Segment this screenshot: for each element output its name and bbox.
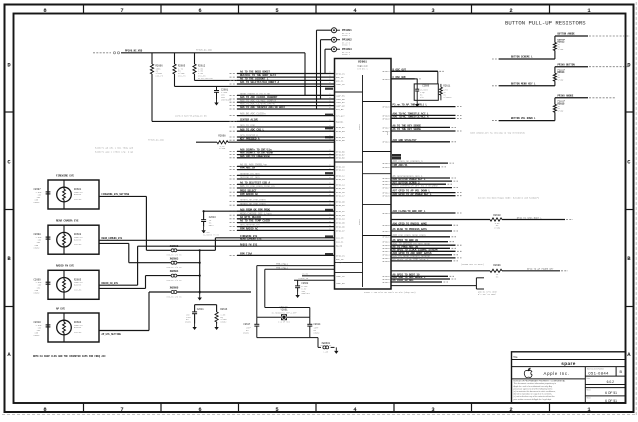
- document number: [587, 367, 609, 375]
- capacitor C2606: [415, 84, 430, 100]
- svg-text:nnnnn 7: nnnnn 7: [342, 34, 350, 37]
- wire XW2604 out: [177, 275, 200, 277]
- svg-text:B=nnnn: B=nnnn: [74, 238, 82, 241]
- svg-text:CLK_I0: CLK_I0: [336, 237, 344, 240]
- wires: net rows into U2601 left pins: [230, 71, 335, 256]
- capacitor C2607: [34, 188, 51, 204]
- svg-text:U2601: U2601: [358, 61, 367, 64]
- svg-text:LADP_EN: LADP_EN: [336, 94, 345, 97]
- svg-text:GPIO_D4: GPIO_D4: [336, 218, 345, 221]
- svg-text:XW2605: XW2605: [170, 287, 179, 290]
- svg-text:PP3V0 ANODE: PP3V0 ANODE: [558, 94, 574, 97]
- svg-text:GPIO_D2: GPIO_D2: [336, 210, 345, 213]
- svg-text:a1 mT cnn-rnn: a1 mT cnn-rnn: [198, 77, 213, 80]
- svg-text:t10-3%: t10-3%: [74, 243, 82, 246]
- svg-text:1/16W: 1/16W: [558, 110, 565, 113]
- svg-text:GPIO_D5: GPIO_D5: [336, 222, 345, 225]
- svg-text:(R2609 DNI to 5xxK): (R2609 DNI to 5xxK): [461, 263, 484, 266]
- ground below C2601: [216, 99, 218, 103]
- annotation left of R2608: [95, 147, 134, 154]
- svg-text:Title: Title: [513, 356, 518, 359]
- svg-text:Button ESD boot/logic mode: R2: Button ESD boot/logic mode: R2610(n) and…: [478, 197, 539, 200]
- svg-text:GPIO26: GPIO26: [383, 106, 391, 109]
- resistor R2610: [391, 214, 573, 229]
- jumper XW2601: [320, 342, 334, 354]
- wire XW2603 out: [177, 262, 200, 264]
- crystal Y2601: [257, 306, 310, 324]
- capacitor C2609: [34, 278, 51, 294]
- svg-text:XW2602: XW2602: [170, 245, 179, 248]
- version field: [587, 377, 615, 384]
- pull-up network R2615: [492, 94, 616, 120]
- wire OSC loop: [391, 71, 438, 84]
- svg-text:C0402: C0402: [34, 334, 41, 337]
- svg-text:2: 2: [509, 7, 512, 14]
- svg-text:GPIO_B5: GPIO_B5: [336, 139, 345, 142]
- capacitor C2610: [34, 321, 51, 337]
- thermistor R2601: [57, 180, 84, 209]
- wire C2611/R2616 tie: [195, 305, 217, 312]
- svg-text:AP_EYE_SETTING: AP_EYE_SETTING: [102, 333, 122, 336]
- grid row labels left: [5, 62, 14, 359]
- svg-text:B: B: [620, 370, 623, 374]
- pin blobs right edge: [392, 154, 401, 160]
- svg-text:Css-rn: Css-rn: [156, 75, 164, 78]
- svg-text:C0402: C0402: [314, 331, 321, 334]
- svg-text:Css-rn: Css-rn: [178, 75, 186, 78]
- svg-text:C/H: C/H: [420, 96, 423, 99]
- resistor R2609: [391, 263, 568, 279]
- svg-text:GPIO23: GPIO23: [383, 212, 391, 215]
- wire C6_5D stub: [302, 273, 335, 276]
- svg-text:R2607/1 AC9 S (TkOt C/A: O Q): R2607/1 AC9 S (TkOt C/A: O Q): [95, 150, 133, 153]
- svg-text:GPIO25: GPIO25: [383, 195, 391, 198]
- svg-text:C2606: C2606: [422, 85, 430, 88]
- wire R2605 leg to row: [175, 74, 335, 86]
- svg-text:U2601 7 13F B/11 ON 15x/1 A1 0: U2601 7 13F B/11 ON 15x/1 A1 0/B (TkOy n…: [364, 291, 416, 294]
- svg-text:R2611: R2611: [443, 85, 451, 88]
- svg-text:GPIO_B8: GPIO_B8: [336, 157, 345, 160]
- ground at bead bus: [199, 294, 201, 298]
- svg-text:PP3V0_NC_VDD: PP3V0_NC_VDD: [196, 48, 212, 51]
- svg-text:NOTICE OF PROPRIETARY PROPERTY: NOTICE OF PROPRIETARY PROPERTY / CONFIDE…: [514, 379, 567, 382]
- svg-text:R2616: R2616: [220, 308, 228, 311]
- wire XTAL1 from U2601: [257, 263, 335, 318]
- svg-text:XW2603: XW2603: [170, 257, 179, 260]
- svg-text:32.768KHZ/12.5PF-1.5PF: 32.768KHZ/12.5PF-1.5PF: [272, 311, 297, 314]
- svg-text:GA_5D: GA_5D: [336, 245, 343, 248]
- wire net FIREWIRE EYE row: [215, 235, 334, 238]
- svg-text:051-0844: 051-0844: [588, 370, 609, 375]
- svg-text:R2609: R2609: [493, 264, 501, 267]
- svg-text:GPIO TO AP POWER KEY: GPIO TO AP POWER KEY: [527, 268, 554, 271]
- svg-text:SYS_ALT: SYS_ALT: [336, 115, 345, 118]
- resistor R2616: [215, 308, 228, 324]
- svg-text:6 OF 51: 6 OF 51: [605, 391, 617, 395]
- svg-text:PP3V0_NC_VDD: PP3V0_NC_VDD: [148, 139, 164, 142]
- svg-text:FIREWIRE_EYE_SETTING: FIREWIRE_EYE_SETTING: [102, 193, 130, 196]
- svg-text:GPIO_B2: GPIO_B2: [336, 126, 345, 129]
- svg-text:NGL1: NGL1: [209, 224, 215, 227]
- svg-text:GPIO_D3: GPIO_D3: [336, 214, 345, 217]
- wire REAR CAMERA eye to U2601: [99, 240, 335, 262]
- svg-text:GPIO28: GPIO28: [383, 78, 391, 81]
- svg-text:SOME CHOOSE_KEY PA testing to: SOME CHOOSE_KEY PA testing to low thresh…: [470, 131, 526, 134]
- svg-text:6 OF 51: 6 OF 51: [605, 399, 617, 403]
- svg-text:prior written consent of Apple: prior written consent of Apple Inc. lega…: [514, 398, 553, 401]
- svg-text:LADP_CK: LADP_CK: [336, 275, 345, 278]
- svg-text:7: 7: [120, 406, 123, 413]
- svg-text:RADIO_FW_EYE: RADIO_FW_EYE: [102, 282, 119, 285]
- grid column labels bottom: [43, 403, 591, 413]
- page edge artifact bottom: [2, 414, 636, 416]
- svg-text:GPIO_D7: GPIO_D7: [336, 229, 345, 232]
- pull-up network R2614: [492, 63, 630, 86]
- svg-text:BUTTON ANODE: BUTTON ANODE: [558, 33, 576, 36]
- svg-text:B=nnnn: B=nnnn: [74, 326, 82, 329]
- grid row labels right: [626, 62, 634, 359]
- ground below R2616: [216, 324, 218, 328]
- resistor R2605: [173, 53, 186, 78]
- jumper XW2604: [167, 270, 182, 282]
- svg-text:R2610: R2610: [493, 214, 501, 217]
- U2601 left pin names/numbers: [336, 72, 345, 285]
- wire AP eye riser: [99, 292, 171, 331]
- svg-text:nnnnn 7: nnnnn 7: [342, 44, 350, 47]
- svg-text:1/16W: 1/16W: [494, 227, 501, 230]
- svg-text:FIREWIRE EYE: FIREWIRE EYE: [56, 174, 75, 177]
- svg-text:(c) not to disclose any of its: (c) not to disclose any of its contents …: [514, 395, 555, 398]
- capacitor C2617: [243, 317, 259, 337]
- svg-text:GPIO21: GPIO21: [383, 130, 391, 133]
- svg-text:7: 7: [120, 7, 123, 14]
- svg-text:BUTTON SCHEME L: BUTTON SCHEME L: [511, 56, 533, 59]
- svg-text:10/0.5 B4//TM_plug-in 05: 10/0.5 B4//TM_plug-in 05: [175, 115, 207, 118]
- box around C2606: [414, 84, 438, 100]
- svg-text:REAR_CAMERA_EYE: REAR_CAMERA_EYE: [102, 237, 123, 240]
- svg-text:nnn-nn 1/n nn: nnn-nn 1/n nn: [167, 254, 182, 257]
- wire FIREWIRE eye to XW2602: [99, 196, 171, 250]
- wire PP3U03 drop: [325, 49, 332, 73]
- grid column labels top: [43, 5, 591, 14]
- svg-text:t1-nnnnn rn nn: t1-nnnnn rn nn: [203, 234, 219, 237]
- svg-text:R2608: R2608: [218, 135, 226, 138]
- svg-text:6.0.2: 6.0.2: [607, 380, 614, 384]
- svg-text:BUTTON VOL DOWN L: BUTTON VOL DOWN L: [511, 117, 536, 120]
- AP EYE block box: [48, 307, 99, 342]
- svg-text:nnnnn: nnnnn: [358, 218, 361, 225]
- svg-text:nnnnn 7: nnnnn 7: [342, 53, 350, 56]
- ground below C2611: [194, 324, 196, 328]
- svg-text:LADP_CK: LADP_CK: [336, 83, 345, 86]
- thermistor R2603: [57, 270, 84, 299]
- svg-text:GPIO21: GPIO21: [383, 70, 391, 73]
- svg-text:C0402: C0402: [34, 292, 41, 295]
- svg-text:C0402: C0402: [243, 331, 250, 334]
- svg-text:PP3V0_NC_VDD: PP3V0_NC_VDD: [125, 50, 143, 53]
- svg-text:GPIO_C3: GPIO_C3: [336, 178, 345, 181]
- svg-text:Apple Inc.: Apple Inc.: [544, 371, 570, 376]
- svg-text:spare: spare: [561, 361, 576, 366]
- svg-text:B=nnnn: B=nnnn: [74, 193, 82, 196]
- svg-text:GPIO26: GPIO26: [383, 166, 391, 169]
- svg-text:PP3V0_SW: PP3V0_SW: [299, 277, 309, 280]
- svg-text:BUTTON MENU KEY L: BUTTON MENU KEY L: [511, 82, 536, 85]
- svg-text:AP EYE: AP EYE: [56, 307, 66, 310]
- svg-text:nnn-nn 1/n nn: nnn-nn 1/n nn: [167, 266, 182, 269]
- svg-text:6: 6: [198, 406, 201, 413]
- wire XW2605 out to crystal area: [177, 291, 251, 293]
- svg-text:GPIO_C7: GPIO_C7: [336, 195, 345, 198]
- REAR CAMERA EYE block box: [48, 220, 99, 255]
- svg-text:GPIO27: GPIO27: [383, 126, 391, 129]
- capacitor C2601: [214, 86, 232, 101]
- ground after XW2601: [335, 347, 337, 351]
- ground below C2662: [297, 292, 299, 296]
- svg-text:GPIO TO SHKS BOOT L: GPIO TO SHKS BOOT L: [517, 216, 543, 219]
- svg-text:t10-3%: t10-3%: [74, 331, 82, 334]
- svg-text:B'T On/ nn GnB/: B'T On/ nn GnB/: [478, 293, 497, 296]
- ground below C2606 box: [416, 101, 418, 105]
- svg-text:nnnnn: nnnnn: [358, 123, 361, 130]
- svg-text:GPIO_D1: GPIO_D1: [336, 204, 345, 207]
- svg-text:GPIO20: GPIO20: [383, 260, 391, 263]
- svg-text:B'd bT1 s: B'd bT1 s: [357, 67, 367, 70]
- svg-text:B=nnnn: B=nnnn: [74, 284, 82, 287]
- FIREWIRE EYE block box: [48, 174, 99, 209]
- svg-text:GPIO_C4: GPIO_C4: [336, 183, 345, 186]
- svg-text:GPIO26: GPIO26: [383, 236, 391, 239]
- ground bus vertical with junctions: [199, 250, 201, 294]
- legal text: [514, 379, 567, 401]
- wire crystal bottom rail: [257, 338, 321, 348]
- svg-text:GPIO_C6: GPIO_C6: [336, 191, 345, 194]
- wire PP3U01 drop: [317, 30, 335, 109]
- resistor R2611: [440, 84, 452, 100]
- wire XW2602 out riser to row: [177, 238, 215, 252]
- capacitor C2613: [201, 210, 237, 236]
- pin junction blobs on U2601 left edge: [325, 88, 333, 256]
- svg-text:OUT_B3: OUT_B3: [336, 108, 344, 111]
- node PP3U02 test point: [332, 37, 353, 47]
- svg-text:(b) not to reproduce or copy i: (b) not to reproduce or copy it or its c…: [514, 393, 553, 396]
- bracket stub rows: [391, 278, 498, 296]
- svg-text:(a) to maintain this document: (a) to maintain this document in strict …: [514, 390, 557, 393]
- svg-text:C0402: C0402: [34, 246, 41, 249]
- svg-text:C2611: C2611: [197, 308, 205, 311]
- node PP3U01 test point: [332, 28, 353, 38]
- capacitor C2614: [307, 317, 321, 337]
- svg-text:GPIO21: GPIO21: [383, 141, 391, 144]
- capacitor C2608: [34, 233, 51, 249]
- svg-text:C0402: C0402: [185, 321, 192, 324]
- svg-text:possessor agrees to all of the: possessor agrees to all of the following…: [514, 387, 554, 390]
- op-amp U2601 main IC body: [335, 59, 392, 290]
- pull-up network R2613: [492, 33, 630, 59]
- Apple logo: [524, 368, 532, 377]
- thermistor R2604: [57, 313, 84, 342]
- svg-text:GPIO_D0: GPIO_D0: [336, 201, 345, 204]
- svg-text:RADIO1: RADIO1: [336, 120, 344, 123]
- svg-text:X5R/4C1: X5R/4C1: [301, 292, 310, 295]
- svg-text:GPIO28: GPIO28: [383, 117, 391, 120]
- RADIO FW EYE block box: [48, 265, 99, 300]
- svg-text:ADC_I1: ADC_I1: [336, 261, 344, 264]
- svg-text:2: 2: [509, 406, 512, 413]
- resistor R2606: [150, 53, 163, 78]
- title block rows: [512, 360, 626, 403]
- wire PP3U02 drop: [321, 40, 332, 99]
- svg-text:C0402: C0402: [34, 201, 41, 204]
- jumper XW2605: [167, 287, 182, 299]
- wire rail drop to U2601: [305, 53, 335, 96]
- svg-text:RADIO FW EYE: RADIO FW EYE: [56, 265, 75, 268]
- svg-text:t10-3%: t10-3%: [74, 288, 82, 291]
- svg-text:nnn-nn 1/n nn: nnn-nn 1/n nn: [167, 279, 182, 282]
- svg-text:LADP_EN: LADP_EN: [336, 282, 345, 285]
- svg-text:GPIO_IN: GPIO_IN: [336, 72, 345, 75]
- svg-text:GPIO_D6: GPIO_D6: [336, 226, 345, 229]
- svg-text:(.9 nF nn): (.9 nF nn): [278, 320, 289, 323]
- resistor R2612: [193, 53, 213, 80]
- svg-text:PP3V0 BUTTON: PP3V0 BUTTON: [558, 63, 576, 66]
- svg-text:1/16W: 1/16W: [219, 147, 226, 150]
- svg-text:GPIO_IN: GPIO_IN: [336, 254, 345, 257]
- svg-text:1/16nnn: 1/16nnn: [443, 96, 451, 99]
- svg-text:C0402: C0402: [220, 321, 227, 324]
- svg-text:6: 6: [198, 7, 201, 14]
- svg-text:Apple Inc. and is for authoriz: Apple Inc. and is for authorized use onl…: [514, 385, 553, 388]
- capacitor C2611: [185, 308, 204, 324]
- net PP3V0_NC_VDD rail: [93, 48, 305, 54]
- svg-text:GPIO21: GPIO21: [383, 230, 391, 233]
- svg-text:GPIO27: GPIO27: [383, 187, 391, 190]
- wire RADIO FW eye risers: [99, 246, 335, 288]
- svg-text:ADC_I1: ADC_I1: [336, 79, 344, 82]
- svg-text:GPIO_C1: GPIO_C1: [336, 169, 345, 172]
- svg-text:GPIO_C2: GPIO_C2: [336, 174, 345, 177]
- svg-text:BUTTON PULL-UP RESISTORS: BUTTON PULL-UP RESISTORS: [505, 20, 586, 27]
- wire R2612 leg to row: [195, 74, 238, 80]
- svg-text:GPIO22: GPIO22: [383, 281, 391, 284]
- svg-text:GPIO_C5: GPIO_C5: [336, 187, 345, 190]
- svg-text:REAR CAMERA EYE: REAR CAMERA EYE: [56, 220, 79, 223]
- U2601 internal partitions: [335, 75, 392, 287]
- svg-text:1/16W: 1/16W: [558, 79, 565, 82]
- svg-text:nnn-nn 1/n nn: nnn-nn 1/n nn: [167, 295, 182, 298]
- svg-text:GPIO25: GPIO25: [383, 224, 391, 227]
- svg-text:GPIO_B3: GPIO_B3: [336, 130, 345, 133]
- svg-text:This document contains informa: This document contains information propr…: [514, 382, 557, 385]
- svg-text:NOTE:10 KEEP CLKS AND TRC DIAM: NOTE:10 KEEP CLKS AND TRC DIAMETER CAPS …: [33, 355, 106, 358]
- wire R2606 leg to row: [152, 74, 237, 121]
- svg-text:1/16W: 1/16W: [558, 48, 565, 51]
- jumper XW2602: [167, 245, 182, 257]
- svg-text:t10-3%: t10-3%: [74, 198, 82, 201]
- svg-text:CLK_I1: CLK_I1: [336, 240, 344, 243]
- title block outline: [512, 352, 626, 403]
- page edge artifact right: [635, 2, 637, 415]
- svg-text:GPIO23: GPIO23: [383, 162, 391, 165]
- svg-text:XW2604: XW2604: [170, 270, 179, 273]
- ground below C2613: [203, 227, 205, 231]
- capacitor C2662: [294, 277, 335, 295]
- thermistor R2602: [57, 225, 84, 254]
- node PP3U03 test point: [332, 47, 353, 57]
- jumper XW2603: [167, 257, 182, 269]
- wires: net rows from U2601 right pins: [383, 68, 462, 284]
- wire XTAL2 from U2601: [265, 266, 335, 317]
- svg-text:R2607/1 A8 CH1 1 mx1 TkOy Lpk: R2607/1 A8 CH1 1 mx1 TkOy Lpk: [95, 147, 134, 150]
